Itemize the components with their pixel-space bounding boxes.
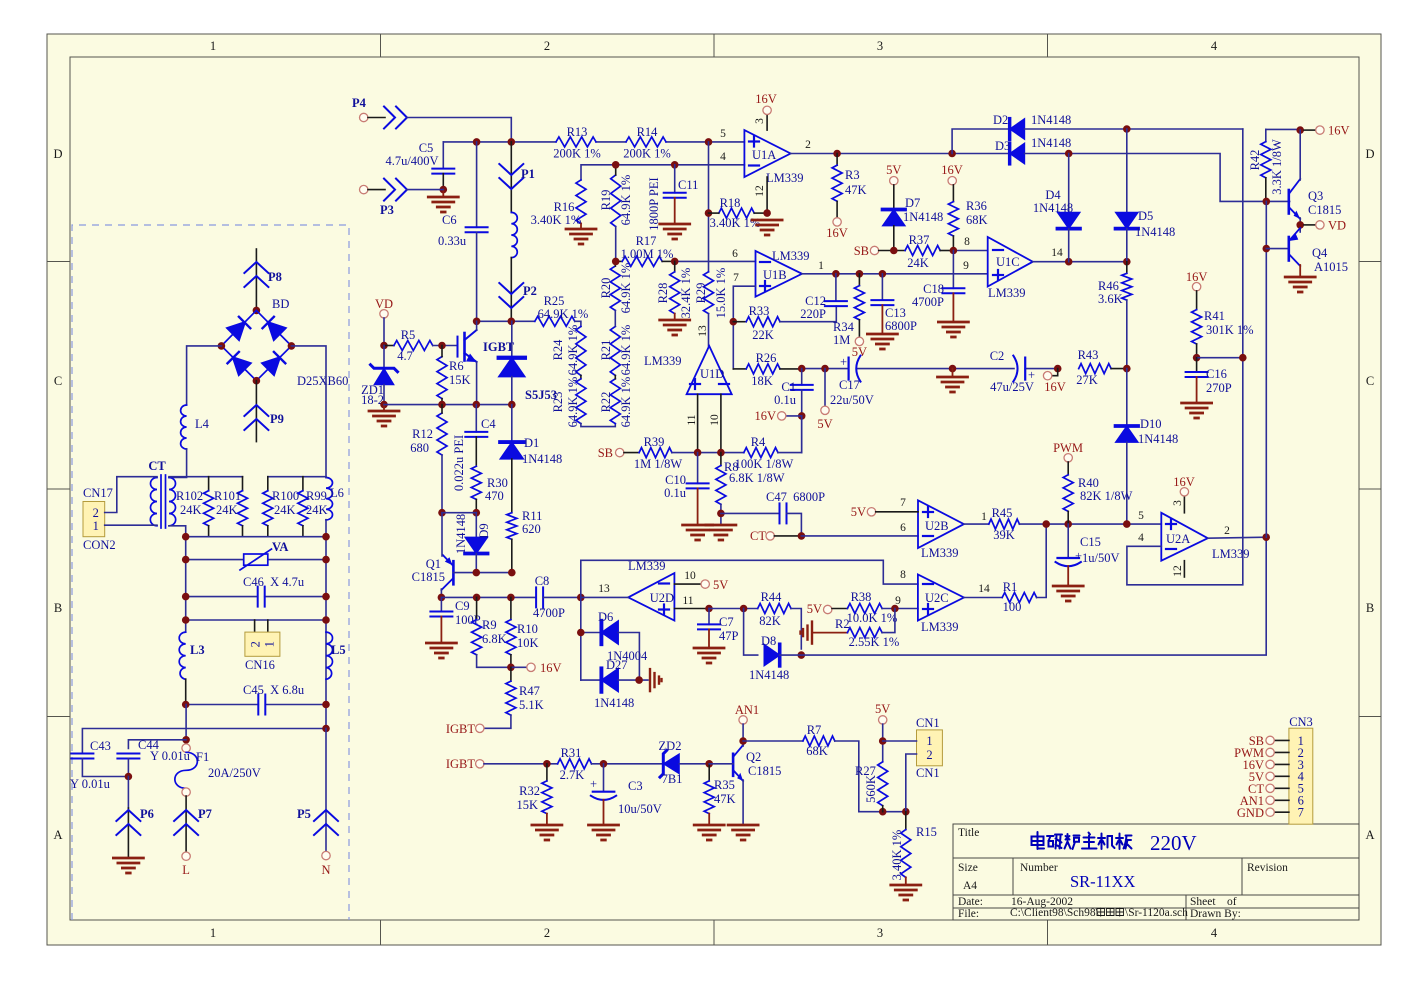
inductor L4 (181, 405, 187, 449)
svg-text:+: + (1075, 549, 1082, 563)
svg-text:200K 1%: 200K 1% (553, 147, 601, 161)
svg-text:64.9K 1%: 64.9K 1% (566, 325, 580, 376)
svg-text:C17: C17 (839, 378, 860, 392)
svg-text:82K: 82K (759, 614, 781, 628)
wire R25 to ladder (575, 321, 581, 326)
svg-text:R29: R29 (694, 283, 708, 304)
svg-text:C1: C1 (781, 380, 796, 394)
pin 10 of U2D to 5V (674, 583, 701, 585)
wire P4 to top rail (407, 118, 511, 142)
svg-text:IGBT: IGBT (446, 757, 476, 771)
svg-text:4: 4 (1211, 926, 1218, 940)
svg-text:SR-11XX: SR-11XX (1070, 872, 1135, 891)
ground under Q2 emitter (742, 780, 744, 824)
svg-text:R39: R39 (644, 435, 665, 449)
svg-text:PWM: PWM (1053, 441, 1083, 455)
svg-text:100: 100 (1003, 600, 1022, 614)
svg-text:Number: Number (1020, 862, 1058, 874)
title glyph 磁 (1047, 835, 1062, 849)
svg-text:CON2: CON2 (83, 538, 116, 552)
svg-text:1: 1 (818, 260, 824, 272)
op-amp U2B LM339 (918, 500, 964, 548)
svg-text:CN17: CN17 (83, 486, 113, 500)
svg-text:5: 5 (720, 128, 726, 140)
svg-text:24K: 24K (907, 256, 929, 270)
resistor R22 64.9K (610, 379, 620, 424)
resistor R8 6.8K (720, 453, 722, 466)
signal ground D27 (650, 669, 662, 691)
svg-text:13: 13 (697, 325, 709, 337)
wire U1B output pin1 rail (802, 273, 988, 275)
svg-text:R47: R47 (519, 684, 540, 698)
wire pin8 U1C (953, 250, 987, 252)
svg-text:R20: R20 (599, 278, 613, 299)
svg-text:1N4148: 1N4148 (1135, 225, 1175, 239)
title glyph 机 (1098, 834, 1115, 850)
resistor R10 10K (510, 597, 512, 619)
svg-text:2.7K: 2.7K (560, 768, 585, 782)
svg-text:10u/50V: 10u/50V (618, 802, 662, 816)
svg-text:620: 620 (522, 522, 541, 536)
capacitor C12 220P (835, 274, 837, 301)
svg-text:VA: VA (272, 540, 288, 554)
svg-text:R11: R11 (522, 509, 542, 523)
wire to F1 (185, 705, 187, 744)
svg-text:1N4148: 1N4148 (1033, 201, 1073, 215)
svg-text:D: D (53, 147, 62, 161)
wire D8 output rail to U2A loop (780, 537, 1266, 655)
wire ladder bottom (581, 424, 615, 427)
transistor Q3 C1815 (1288, 190, 1291, 214)
resistor R5 4.7 (384, 345, 394, 347)
wire CN1 pin1 to 5V node (883, 740, 917, 742)
ground under C5 (442, 190, 444, 197)
svg-text:R101: R101 (214, 489, 241, 503)
capacitor C47 6800P (721, 512, 780, 514)
ground under Q4 (1299, 265, 1301, 277)
svg-text:IGBT: IGBT (483, 340, 515, 354)
svg-text:R10: R10 (517, 622, 538, 636)
svg-text:0.33u: 0.33u (438, 234, 467, 248)
diode D9 1N4148 (475, 513, 477, 538)
resistor R101 24K (242, 477, 244, 491)
svg-text:7: 7 (1298, 806, 1304, 820)
svg-text:R19: R19 (599, 190, 613, 211)
svg-text:LM339: LM339 (772, 249, 810, 263)
svg-text:C9: C9 (455, 599, 470, 613)
CN3 pin wires and terminals (1274, 740, 1289, 812)
svg-text:P7: P7 (198, 807, 212, 821)
svg-text:C1815: C1815 (1308, 203, 1341, 217)
svg-text:14: 14 (1051, 247, 1063, 259)
diode D4 1N4148 (1068, 154, 1070, 213)
capacitor C44 Y0.01u (117, 754, 139, 759)
wire left column (185, 537, 187, 632)
svg-text:9: 9 (895, 595, 901, 607)
svg-text:1M 1/8W: 1M 1/8W (634, 457, 682, 471)
svg-text:68K: 68K (806, 744, 828, 758)
svg-text:LM339: LM339 (644, 354, 682, 368)
svg-text:16V: 16V (941, 163, 963, 177)
connector P7 / terminal L (185, 796, 187, 852)
resistor R26 18K (733, 368, 746, 370)
svg-text:2: 2 (926, 748, 932, 762)
svg-text:64.9K 1%: 64.9K 1% (538, 307, 589, 321)
wire U2A pin5 rail (1046, 523, 1161, 525)
svg-text:R41: R41 (1204, 309, 1225, 323)
op-amp U1D LM339 (687, 346, 732, 394)
node bridge bottom (253, 377, 261, 385)
svg-text:10K: 10K (517, 636, 539, 650)
wire Q3 base node (1263, 198, 1271, 206)
fuse F1 20A/250V (182, 744, 190, 752)
svg-text:ZD2: ZD2 (659, 739, 682, 753)
resistor R29 15.0K (708, 142, 710, 272)
svg-text:N: N (321, 863, 330, 877)
svg-text:16V: 16V (1044, 380, 1066, 394)
wire rail under C45 (82, 729, 326, 754)
op-amp U1B LM339 (756, 251, 803, 297)
capacitor C15 1u/50V (1067, 524, 1069, 558)
transistor Q2 C1815 (732, 754, 735, 776)
svg-text:R5: R5 (401, 328, 416, 342)
resistor R20 64.9K (610, 266, 620, 310)
svg-text:D2: D2 (993, 113, 1008, 127)
svg-text:R2: R2 (835, 617, 850, 631)
svg-text:\Sr-1120a.sch: \Sr-1120a.sch (1125, 907, 1188, 919)
16V terminal near R43 (1052, 369, 1058, 376)
diode D6 1N4004 (581, 632, 602, 634)
svg-text:U2A: U2A (1166, 532, 1190, 546)
svg-text:3.40K 1%: 3.40K 1% (531, 213, 582, 227)
svg-text:U1A: U1A (752, 148, 776, 162)
svg-text:6.8K: 6.8K (482, 632, 507, 646)
connector P6 (127, 777, 129, 809)
svg-text:47K: 47K (845, 183, 867, 197)
svg-text:64.9K 1%: 64.9K 1% (566, 377, 580, 428)
svg-text:C4: C4 (481, 417, 496, 431)
resistor R30 470 (471, 466, 481, 499)
diode D8 1N4148 (744, 609, 758, 656)
svg-text:2: 2 (805, 139, 811, 151)
resistor R16 3.40K (576, 180, 586, 224)
resistor R32 15K (546, 764, 548, 781)
inductor (work coil) (511, 212, 517, 257)
svg-text:C12: C12 (805, 294, 826, 308)
resistor R47 5.1K (510, 667, 512, 681)
capacitor C4 0.022u PEI (475, 405, 477, 432)
svg-text:P3: P3 (380, 203, 394, 217)
svg-text:P8: P8 (268, 270, 282, 284)
resistor R42 3.3K 1/8W (1265, 129, 1267, 141)
connector P5 / terminal N (325, 729, 327, 852)
svg-text:C3: C3 (628, 779, 643, 793)
svg-text:C16: C16 (1206, 367, 1227, 381)
capacitor C10 0.1u (697, 453, 699, 484)
svg-text:LM339: LM339 (921, 546, 959, 560)
svg-text:D4: D4 (1045, 188, 1061, 202)
wire SB rail (698, 452, 744, 454)
svg-text:2: 2 (249, 641, 263, 647)
svg-text:VD: VD (375, 297, 393, 311)
svg-text:+: + (590, 777, 597, 791)
svg-text:12: 12 (754, 185, 766, 197)
svg-text:Q1: Q1 (426, 557, 441, 571)
wire U2D output to C8 (581, 596, 628, 598)
zener ZD1 18-2 (383, 346, 385, 369)
capacitor C7 47P (708, 609, 710, 625)
svg-text:LM339: LM339 (766, 171, 804, 185)
svg-text:S5J53: S5J53 (525, 388, 557, 402)
capacitor C43 Y0.01u (71, 754, 93, 759)
svg-text:16V: 16V (755, 92, 777, 106)
capacitor C18 4700P (952, 251, 954, 289)
connector P2 (510, 258, 512, 322)
svg-text:64.9K 1%: 64.9K 1% (619, 325, 633, 376)
svg-text:R13: R13 (567, 125, 588, 139)
svg-text:1N4148: 1N4148 (1031, 113, 1071, 127)
svg-text:24K: 24K (216, 503, 238, 517)
resistor R43 27K (1079, 364, 1111, 374)
resistor R9 6.8K (476, 597, 478, 619)
wire CT to U2B pin6 (801, 535, 918, 537)
svg-text:U2B: U2B (925, 519, 949, 533)
svg-text:1: 1 (926, 734, 932, 748)
svg-text:L6: L6 (330, 486, 344, 500)
svg-text:R9: R9 (482, 618, 497, 632)
svg-text:CN1: CN1 (916, 716, 940, 730)
svg-text:P6: P6 (140, 807, 154, 821)
svg-text:22u/50V: 22u/50V (830, 393, 874, 407)
resistor R12 680 (437, 413, 447, 455)
svg-text:IGBT: IGBT (446, 722, 476, 736)
svg-text:7: 7 (733, 272, 739, 284)
svg-text:C46 X 4.7u: C46 X 4.7u (243, 575, 305, 589)
svg-text:U1D: U1D (700, 367, 724, 381)
svg-text:Size: Size (958, 862, 978, 874)
dashed partition box (72, 225, 349, 920)
wire U1B pin6 rail (675, 260, 756, 262)
svg-text:Y 0.01u: Y 0.01u (70, 777, 111, 791)
wire R12-R30 link (442, 512, 476, 514)
svg-text:CT: CT (148, 459, 166, 473)
inner border (70, 57, 1359, 920)
svg-text:C47 6800P: C47 6800P (766, 490, 825, 504)
wire CT secondary bottom (169, 526, 186, 537)
op-amp U2D LM339 (mirrored) (628, 573, 674, 620)
capacitor C1 0.1u (801, 369, 803, 385)
wire C17/C2 rail (802, 368, 849, 370)
wire C44 top (128, 740, 186, 749)
op-amp U2C LM339 (918, 574, 964, 620)
svg-text:R4: R4 (751, 435, 766, 449)
svg-text:11: 11 (682, 595, 693, 607)
svg-text:4700P: 4700P (912, 295, 944, 309)
wire Q1 emitter (441, 513, 443, 556)
svg-text:C10: C10 (665, 473, 686, 487)
svg-text:D7: D7 (905, 196, 920, 210)
pin 3 of U2A to 16V (1183, 496, 1185, 513)
svg-text:5.1K: 5.1K (519, 698, 544, 712)
transistor Q4 A1015 (1263, 245, 1271, 253)
svg-text:1N4148: 1N4148 (594, 696, 634, 710)
svg-text:C18: C18 (923, 282, 944, 296)
wire bridge right to L6 and down (291, 346, 326, 478)
svg-text:24K: 24K (274, 503, 296, 517)
svg-text:1N4148: 1N4148 (1031, 136, 1071, 150)
svg-text:1: 1 (93, 519, 99, 533)
diode D27 1N4148 (580, 597, 582, 680)
svg-text:680: 680 (410, 441, 429, 455)
diode D3 1N4148 (1010, 143, 1025, 164)
svg-text:200K 1%: 200K 1% (623, 147, 671, 161)
svg-text:F1: F1 (196, 750, 209, 764)
wire U1A pin4 rail (581, 165, 744, 180)
svg-text:1: 1 (210, 39, 216, 53)
resistor R2 2.55K (801, 622, 813, 644)
svg-text:2: 2 (93, 506, 99, 520)
svg-text:2: 2 (1224, 525, 1230, 537)
wire IGBT emitter to rail (476, 362, 478, 405)
svg-text:U1C: U1C (996, 255, 1020, 269)
svg-text:220V: 220V (1150, 831, 1197, 855)
capacitor C2 47u/25V (1013, 356, 1017, 382)
wire C8 rail (441, 596, 536, 598)
svg-text:6: 6 (732, 248, 738, 260)
svg-text:1N4148: 1N4148 (522, 452, 562, 466)
svg-text:A1015: A1015 (1314, 260, 1348, 274)
wire D3 to corner and Q3 base (1025, 154, 1290, 202)
svg-text:R100: R100 (272, 489, 299, 503)
svg-text:D6: D6 (598, 610, 613, 624)
svg-text:P5: P5 (297, 807, 311, 821)
svg-text:D8: D8 (761, 634, 776, 648)
resistor R33 22K (733, 321, 746, 323)
svg-text:R45: R45 (992, 506, 1013, 520)
svg-text:R21: R21 (599, 340, 613, 361)
svg-text:82K 1/8W: 82K 1/8W (1080, 489, 1133, 503)
resistor R7 68K (743, 740, 803, 742)
svg-text:27K: 27K (1076, 373, 1098, 387)
resistor R46 3.6K (1126, 262, 1128, 274)
svg-text:R37: R37 (909, 233, 930, 247)
net label IGBT (gate) (476, 724, 484, 732)
svg-text:Title: Title (958, 827, 979, 839)
capacitor C13 6800P (881, 274, 883, 300)
svg-text:R14: R14 (637, 125, 659, 139)
resistor R14 200K (626, 137, 666, 147)
svg-text:R34: R34 (833, 320, 855, 334)
svg-text:4.7: 4.7 (397, 349, 413, 363)
svg-text:R38: R38 (851, 590, 872, 604)
svg-text:4: 4 (1138, 532, 1144, 544)
svg-text:CN3: CN3 (1289, 715, 1313, 729)
svg-text:File:: File: (958, 908, 979, 920)
16V terminal (511, 666, 527, 668)
svg-text:R26: R26 (756, 351, 777, 365)
svg-text:1: 1 (263, 641, 277, 647)
wire R41 node to pin4 net (1197, 357, 1243, 359)
capacitor C45 X6.8u (186, 704, 259, 706)
svg-text:14: 14 (978, 583, 990, 595)
svg-text:2: 2 (544, 926, 550, 940)
svg-text:0.1u: 0.1u (664, 486, 687, 500)
op-amp U1A LM339 (744, 130, 790, 177)
svg-text:1.00M 1%: 1.00M 1% (621, 247, 674, 261)
wire Q1 base rail (453, 572, 511, 574)
svg-text:A: A (1365, 828, 1374, 842)
svg-text:301K 1%: 301K 1% (1206, 323, 1254, 337)
svg-text:R43: R43 (1078, 348, 1099, 362)
svg-text:3.3K 1/8W: 3.3K 1/8W (1270, 139, 1284, 195)
inductor L3 (179, 632, 186, 679)
wire L3 bottom (185, 679, 187, 704)
svg-text:C8: C8 (535, 574, 550, 588)
svg-text:D3: D3 (995, 139, 1010, 153)
svg-text:R3: R3 (845, 168, 860, 182)
capacitor C6 0.33u (476, 142, 478, 227)
diode D5 1N4148 (1126, 129, 1128, 212)
svg-text:1: 1 (210, 926, 216, 940)
capacitor C9 100P (440, 597, 442, 611)
svg-text:Date:: Date: (958, 896, 983, 908)
resistor R31 2.7K (558, 759, 592, 769)
svg-text:D: D (1365, 147, 1374, 161)
wire 16V top right (1266, 128, 1301, 130)
node bridge right (288, 342, 296, 350)
wire L4 to transformer secondary (169, 449, 187, 478)
svg-text:5V: 5V (875, 702, 890, 716)
resistor R23 64.9K (580, 375, 582, 378)
svg-text:A4: A4 (963, 880, 977, 892)
svg-text:D25XB60: D25XB60 (297, 374, 348, 388)
svg-text:6800P: 6800P (885, 319, 917, 333)
svg-text:LM339: LM339 (988, 286, 1026, 300)
resistor R1 100 (964, 597, 1002, 599)
svg-text:C:\Client98\Sch98\: C:\Client98\Sch98\ (1010, 907, 1100, 919)
svg-text:L3: L3 (190, 643, 205, 657)
wire CN17 pin2 to CT (105, 477, 157, 513)
capacitor C46 X4.7u (186, 596, 258, 598)
svg-text:47u/25V: 47u/25V (990, 380, 1034, 394)
svg-text:R12: R12 (412, 427, 433, 441)
inductor L5 (326, 632, 333, 679)
svg-text:R99: R99 (306, 489, 327, 503)
svg-text:3: 3 (877, 926, 883, 940)
svg-text:Drawn By:: Drawn By: (1190, 908, 1241, 920)
svg-text:15.0K 1%: 15.0K 1% (714, 268, 728, 319)
capacitor C17 22u/50V (847, 358, 849, 380)
title glyph 电 (1032, 832, 1045, 849)
wire Q3 collector (1299, 130, 1301, 180)
op-amp U2A LM339 (1161, 513, 1208, 561)
resistor R4 100K (744, 448, 778, 458)
svg-text:Sheet of: Sheet of (1190, 896, 1237, 908)
svg-text:L: L (182, 863, 190, 877)
svg-text:R40: R40 (1078, 476, 1099, 490)
svg-text:CT: CT (750, 529, 766, 543)
capacitor C5 4.7u/400V (442, 142, 444, 169)
varistor VA (186, 559, 244, 561)
svg-text:C: C (1366, 374, 1374, 388)
svg-text:R31: R31 (561, 746, 582, 760)
svg-text:64.9K 1%: 64.9K 1% (619, 263, 633, 314)
wire emitter rail (384, 404, 512, 406)
node bridge left (218, 342, 226, 350)
svg-text:LM339: LM339 (1212, 547, 1250, 561)
capacitor C16 270P (1196, 358, 1198, 372)
svg-text:1N4148: 1N4148 (454, 514, 468, 554)
